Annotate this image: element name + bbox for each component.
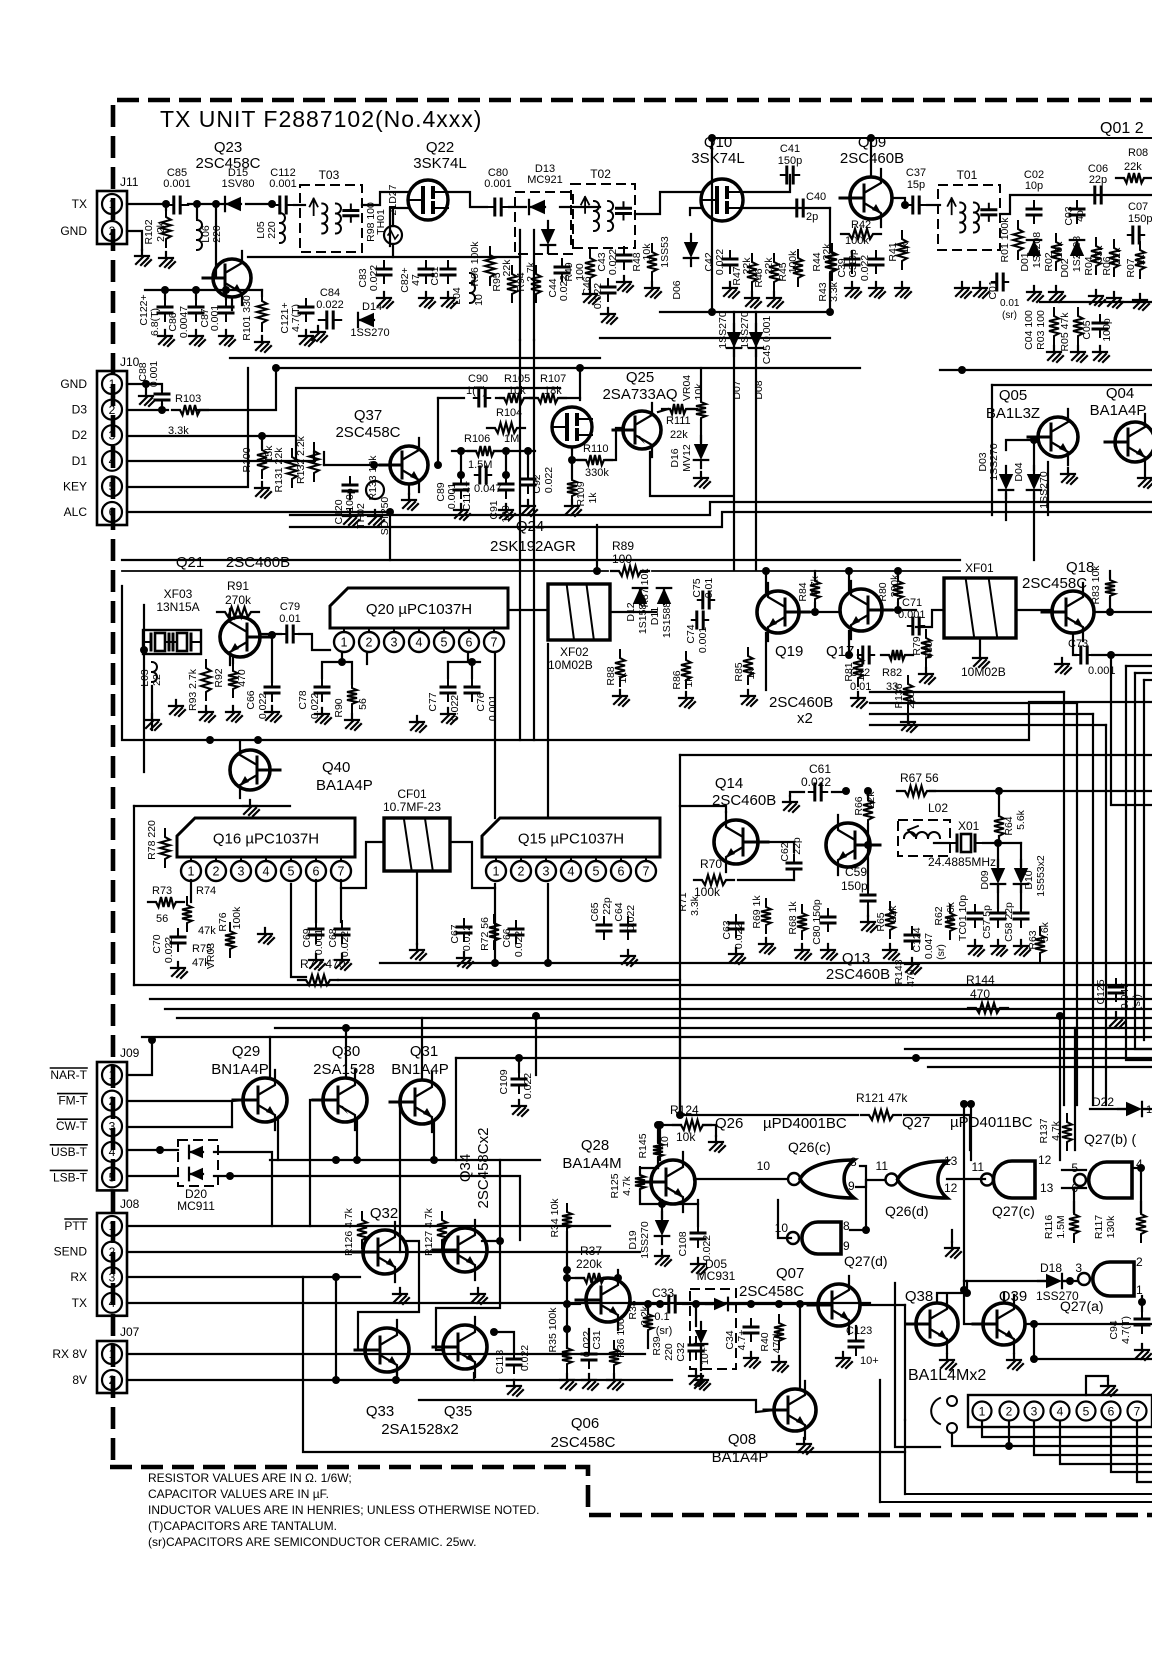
wire Q19 collector emitter xyxy=(765,571,767,592)
capacitor C114 xyxy=(475,474,491,476)
capacitor C72 symbol xyxy=(858,654,874,656)
svg-text:22p: 22p xyxy=(1089,174,1107,186)
wire Q38 Q39 tops xyxy=(937,1281,967,1303)
svg-text:R125: R125 xyxy=(609,1173,621,1198)
svg-text:5: 5 xyxy=(1083,1405,1090,1419)
svg-text:Q28: Q28 xyxy=(581,1137,609,1154)
svg-text:0.022: 0.022 xyxy=(543,467,555,493)
svg-text:Q10: Q10 xyxy=(704,134,732,151)
wire RX drop xyxy=(335,1277,337,1380)
svg-text:5: 5 xyxy=(1071,1161,1078,1175)
wires J08 J07 fanout xyxy=(127,1225,610,1227)
svg-text:56: 56 xyxy=(357,698,369,710)
wire Q20 pin1 rail xyxy=(322,652,342,678)
svg-text:J08: J08 xyxy=(120,1197,140,1211)
resistor R38 symbol xyxy=(643,1306,653,1338)
wire Q06 to Q07 line xyxy=(630,1303,661,1305)
svg-text:C33: C33 xyxy=(652,1286,674,1300)
grounds Q01 area xyxy=(955,282,971,298)
svg-text:R89: R89 xyxy=(612,539,634,553)
ground under Q27c xyxy=(951,1230,953,1242)
svg-text:VR04: VR04 xyxy=(681,375,693,401)
svg-text:BA1A4P: BA1A4P xyxy=(712,1449,769,1466)
svg-text:C61: C61 xyxy=(809,762,831,776)
svg-text:T01: T01 xyxy=(957,168,978,182)
svg-text:2: 2 xyxy=(366,636,373,650)
svg-text:11: 11 xyxy=(876,1159,889,1173)
svg-text:0.022: 0.022 xyxy=(309,693,321,719)
svg-text:1S1588: 1S1588 xyxy=(661,602,673,638)
schematic border dashed xyxy=(113,100,1152,1460)
svg-text:Q23: Q23 xyxy=(214,139,242,156)
svg-text:BA1A4M: BA1A4M xyxy=(562,1155,621,1172)
svg-text:11: 11 xyxy=(972,1160,985,1174)
svg-text:D02: D02 xyxy=(1059,258,1071,277)
svg-text:R08: R08 xyxy=(1128,147,1148,159)
svg-text:R62: R62 xyxy=(933,906,945,925)
svg-text:0.022: 0.022 xyxy=(449,695,461,721)
svg-text:Q27(a): Q27(a) xyxy=(1060,1298,1104,1314)
svg-text:C40: C40 xyxy=(806,191,826,203)
transformer T02 xyxy=(571,184,635,248)
svg-text:Q14: Q14 xyxy=(715,775,743,792)
svg-text:220k: 220k xyxy=(576,1257,603,1271)
svg-text:X01: X01 xyxy=(958,819,980,833)
IC Q16 xyxy=(177,818,355,857)
svg-text:22k: 22k xyxy=(670,429,688,441)
resistor R111 xyxy=(662,404,694,414)
svg-text:R78 220: R78 220 xyxy=(146,820,158,860)
svg-text:2: 2 xyxy=(109,224,116,238)
svg-text:Q13: Q13 xyxy=(842,950,870,967)
wire Q22 gates xyxy=(362,192,408,205)
svg-text:R124: R124 xyxy=(670,1103,699,1117)
svg-text:(sr): (sr) xyxy=(1131,994,1143,1010)
svg-text:Q06: Q06 xyxy=(571,1415,599,1432)
svg-text:4.7(T): 4.7(T) xyxy=(1120,1316,1132,1344)
svg-text:2SA1528x2: 2SA1528x2 xyxy=(381,1421,459,1438)
svg-text:Q34: Q34 xyxy=(457,1154,474,1182)
gate Q26d xyxy=(898,1161,948,1198)
svg-text:VR03: VR03 xyxy=(205,943,217,969)
wire Q10 drain xyxy=(743,175,790,192)
wire XF01 to Q18 xyxy=(1016,609,1052,611)
svg-text:1.5M: 1.5M xyxy=(1055,1215,1067,1238)
svg-text:C65: C65 xyxy=(589,902,601,921)
wire Q09 out xyxy=(892,198,905,205)
svg-text:TX: TX xyxy=(72,1296,87,1310)
svg-text:0.01: 0.01 xyxy=(1000,298,1020,309)
svg-text:0.047: 0.047 xyxy=(474,483,502,495)
svg-text:1SV80: 1SV80 xyxy=(221,178,254,190)
svg-text:4: 4 xyxy=(109,454,116,468)
svg-text:13: 13 xyxy=(1040,1181,1054,1195)
grounds IF1 xyxy=(199,706,215,722)
wire Q30 Q31 bases down xyxy=(310,1100,324,1226)
svg-text:4.7k: 4.7k xyxy=(621,1175,633,1196)
wire Q28 to Q26c xyxy=(694,1178,786,1180)
wire long mid fan xyxy=(134,984,1152,986)
svg-text:µPD4011BC: µPD4011BC xyxy=(950,1114,1033,1131)
svg-text:C71: C71 xyxy=(902,597,922,609)
wire D1 line xyxy=(127,460,315,462)
ground under Q20 pin4 xyxy=(410,716,426,732)
svg-text:1: 1 xyxy=(341,636,348,650)
svg-text:2SC460B: 2SC460B xyxy=(769,694,833,711)
svg-text:C73: C73 xyxy=(1068,638,1088,650)
svg-text:0.001: 0.001 xyxy=(269,178,297,190)
resistor R82 symbol xyxy=(881,650,913,660)
svg-text:R133 10k: R133 10k xyxy=(367,455,379,501)
svg-text:C91: C91 xyxy=(488,500,500,519)
svg-text:1S553x2: 1S553x2 xyxy=(1035,855,1047,897)
svg-text:0.022: 0.022 xyxy=(163,937,175,963)
svg-text:R37: R37 xyxy=(580,1244,602,1258)
connector J08 xyxy=(97,1213,127,1316)
svg-text:2: 2 xyxy=(109,1373,116,1387)
svg-text:(sr): (sr) xyxy=(935,944,947,960)
svg-text:(T)CAPACITORS ARE TANTALUM.: (T)CAPACITORS ARE TANTALUM. xyxy=(148,1519,337,1533)
svg-text:150p: 150p xyxy=(841,879,868,893)
svg-text:C69: C69 xyxy=(301,928,313,947)
svg-text:R77 470: R77 470 xyxy=(300,957,346,971)
transistor Q19 xyxy=(757,583,809,641)
svg-text:T03: T03 xyxy=(319,168,340,182)
svg-text:C72: C72 xyxy=(850,667,870,679)
wires J10 fanout xyxy=(127,383,148,385)
svg-text:µPD4001BC: µPD4001BC xyxy=(763,1115,847,1132)
svg-text:1: 1 xyxy=(109,1219,116,1233)
svg-text:7: 7 xyxy=(491,636,498,650)
gate Q27b2 xyxy=(1089,1162,1132,1198)
svg-text:R96 100k: R96 100k xyxy=(469,241,481,287)
svg-text:D09: D09 xyxy=(979,870,991,889)
plug circles xyxy=(947,1396,957,1406)
svg-text:D22: D22 xyxy=(1092,1095,1114,1109)
svg-text:R39: R39 xyxy=(651,1336,663,1355)
svg-text:C05: C05 xyxy=(1081,320,1093,339)
svg-text:7: 7 xyxy=(338,865,345,879)
svg-text:0.022: 0.022 xyxy=(257,693,269,719)
svg-text:CF01: CF01 xyxy=(397,787,427,801)
svg-text:D16: D16 xyxy=(669,448,681,467)
svg-text:C62: C62 xyxy=(779,842,791,861)
svg-text:6: 6 xyxy=(1108,1405,1115,1419)
svg-text:1: 1 xyxy=(109,1347,116,1361)
wire Q09 collector top xyxy=(870,138,872,177)
svg-text:10k: 10k xyxy=(508,385,526,397)
svg-text:R74: R74 xyxy=(196,885,216,897)
svg-text:R136: R136 xyxy=(893,683,905,708)
svg-text:9: 9 xyxy=(848,1179,855,1193)
svg-text:7: 7 xyxy=(1134,1405,1141,1419)
svg-text:5: 5 xyxy=(441,636,448,650)
svg-text:C123: C123 xyxy=(846,1325,872,1337)
svg-text:2SC458C: 2SC458C xyxy=(1022,575,1087,592)
svg-text:C79: C79 xyxy=(280,601,300,613)
transistor Q37 xyxy=(380,438,428,492)
connector J10 xyxy=(97,371,127,525)
IC Q15 xyxy=(482,818,660,857)
svg-text:C68: C68 xyxy=(327,928,339,947)
wire emitter bus Q29-31 xyxy=(270,1159,540,1161)
svg-text:D14: D14 xyxy=(362,301,382,313)
svg-text:10+: 10+ xyxy=(860,1355,879,1367)
svg-text:13N15A: 13N15A xyxy=(156,600,199,614)
wire Q23 base bias xyxy=(164,290,166,299)
svg-text:0.001: 0.001 xyxy=(209,305,221,331)
fet Q22 xyxy=(408,180,448,220)
wire R105 R107 bus xyxy=(438,397,464,399)
svg-text:1SS270: 1SS270 xyxy=(639,1221,651,1259)
svg-text:0.001: 0.001 xyxy=(487,695,499,721)
grounds xtal cluster xyxy=(968,940,984,956)
svg-text:R92: R92 xyxy=(213,668,225,687)
svg-text:C74: C74 xyxy=(685,624,697,643)
svg-text:Q19: Q19 xyxy=(775,643,803,660)
svg-text:R03 100: R03 100 xyxy=(1035,310,1047,350)
wire right bottom horizontals xyxy=(905,1048,1152,1050)
wire Q37 base xyxy=(313,452,315,462)
transistor Q23 xyxy=(203,251,251,305)
svg-text:R86: R86 xyxy=(671,670,683,689)
svg-text:3: 3 xyxy=(238,865,245,879)
svg-text:Q05: Q05 xyxy=(999,387,1027,404)
svg-text:R93 2.7k: R93 2.7k xyxy=(187,668,199,711)
wire Q17 base right xyxy=(891,609,916,611)
svg-text:6: 6 xyxy=(313,865,320,879)
svg-text:J09: J09 xyxy=(120,1046,140,1060)
svg-text:(sr): (sr) xyxy=(1002,310,1017,321)
svg-text:2SC458C: 2SC458C xyxy=(335,424,400,441)
svg-text:R101 330: R101 330 xyxy=(241,295,253,341)
svg-text:3SK74L: 3SK74L xyxy=(691,150,744,167)
svg-text:100: 100 xyxy=(574,263,586,281)
svg-text:0.0047: 0.0047 xyxy=(178,306,190,338)
svg-text:0.001: 0.001 xyxy=(697,627,709,653)
svg-text:R67 56: R67 56 xyxy=(900,771,939,785)
svg-text:R100: R100 xyxy=(241,447,253,472)
svg-text:T02: T02 xyxy=(590,167,611,181)
svg-text:0.001: 0.001 xyxy=(163,178,191,190)
svg-text:L04: L04 xyxy=(451,287,463,305)
svg-text:R34 10k: R34 10k xyxy=(549,1198,561,1238)
svg-text:1k: 1k xyxy=(587,492,599,504)
svg-text:R116: R116 xyxy=(1043,1215,1055,1239)
svg-text:0.022: 0.022 xyxy=(316,299,344,311)
svg-text:Q29: Q29 xyxy=(232,1043,260,1060)
wire T02 to Q10 xyxy=(635,192,701,214)
wire D3 line xyxy=(196,368,860,410)
svg-text:5: 5 xyxy=(109,1171,116,1185)
svg-text:1M: 1M xyxy=(504,433,519,445)
svg-text:C84: C84 xyxy=(320,287,340,299)
svg-text:1SS270: 1SS270 xyxy=(739,311,751,349)
wire Q27c to Q26d xyxy=(947,1178,985,1180)
transistor Q13 xyxy=(826,815,880,875)
svg-text:4: 4 xyxy=(109,1145,116,1159)
svg-text:Q32: Q32 xyxy=(370,1205,398,1222)
connector J07 xyxy=(97,1341,127,1393)
transistor Q06 and cluster xyxy=(576,1270,630,1330)
svg-text:R105: R105 xyxy=(504,373,530,385)
svg-text:R107: R107 xyxy=(540,373,566,385)
svg-text:BN1A4P: BN1A4P xyxy=(391,1061,449,1078)
wire Q22 output xyxy=(448,192,487,207)
svg-text:R127 4.7k: R127 4.7k xyxy=(423,1207,435,1256)
svg-text:D18: D18 xyxy=(1040,1261,1062,1275)
capacitor C31 symbol xyxy=(588,1346,590,1368)
svg-text:Q35: Q35 xyxy=(444,1403,472,1420)
svg-text:J11: J11 xyxy=(120,175,139,189)
wire Q16 pin7 to CF01 xyxy=(341,842,384,888)
svg-text:Q04: Q04 xyxy=(1106,385,1134,402)
svg-text:4: 4 xyxy=(1057,1405,1064,1419)
svg-text:8V: 8V xyxy=(72,1373,87,1387)
svg-text:15p: 15p xyxy=(907,179,925,191)
svg-text:D12: D12 xyxy=(625,602,637,621)
svg-text:1(T): 1(T) xyxy=(466,385,486,397)
svg-text:10: 10 xyxy=(757,1159,771,1173)
svg-text:C57 5p: C57 5p xyxy=(981,905,993,939)
svg-text:1SS270: 1SS270 xyxy=(717,311,729,349)
svg-text:1: 1 xyxy=(188,865,195,879)
svg-text:Q26(d): Q26(d) xyxy=(885,1203,929,1219)
svg-text:10.7MF-23: 10.7MF-23 xyxy=(383,800,441,814)
svg-text:10p: 10p xyxy=(1025,180,1043,192)
svg-text:R76: R76 xyxy=(217,912,229,931)
svg-text:C109: C109 xyxy=(498,1069,510,1094)
svg-text:4: 4 xyxy=(109,1296,116,1310)
svg-text:2: 2 xyxy=(1006,1405,1013,1419)
grounds Q09 xyxy=(869,282,885,298)
strip box wire xyxy=(122,586,1152,740)
svg-text:R121 47k: R121 47k xyxy=(856,1091,908,1105)
wire Q13 box outline xyxy=(680,754,1152,756)
svg-text:R117: R117 xyxy=(1093,1215,1105,1239)
svg-text:R88: R88 xyxy=(605,666,617,685)
svg-text:R103: R103 xyxy=(175,393,201,405)
svg-text:0.001: 0.001 xyxy=(484,178,512,190)
svg-text:10k: 10k xyxy=(693,383,705,401)
Q01 bias lower rail xyxy=(1040,301,1152,303)
svg-text:ALC: ALC xyxy=(64,505,88,519)
svg-text:D08: D08 xyxy=(753,380,765,399)
transistor Q17 xyxy=(840,581,892,639)
wire Q20 pin6 rail xyxy=(448,661,480,663)
svg-text:MV12: MV12 xyxy=(681,444,693,472)
svg-text:13: 13 xyxy=(944,1154,958,1168)
svg-text:C81: C81 xyxy=(429,266,441,285)
svg-text:C78: C78 xyxy=(297,690,309,709)
svg-text:L02: L02 xyxy=(928,801,948,815)
svg-text:D19: D19 xyxy=(627,1230,639,1249)
svg-text:SEND: SEND xyxy=(54,1245,88,1259)
svg-text:0.022: 0.022 xyxy=(733,923,745,949)
transistor Q21 xyxy=(220,609,270,665)
svg-text:R40: R40 xyxy=(759,1332,771,1351)
svg-text:3: 3 xyxy=(1075,1261,1082,1275)
svg-text:47k: 47k xyxy=(198,925,216,937)
svg-text:R72 56: R72 56 xyxy=(479,917,491,951)
svg-text:56: 56 xyxy=(156,913,168,925)
svg-text:RX: RX xyxy=(70,1270,87,1284)
svg-text:R36 100: R36 100 xyxy=(615,1318,627,1358)
svg-text:R71: R71 xyxy=(677,892,689,911)
svg-text:Q08: Q08 xyxy=(728,1431,756,1448)
svg-text:C32: C32 xyxy=(675,1342,687,1361)
svg-text:270k: 270k xyxy=(225,593,252,607)
connector J09 xyxy=(97,1062,127,1190)
svg-text:R82: R82 xyxy=(882,667,902,679)
wire D20 outputs xyxy=(214,1152,272,1226)
svg-text:2SC458C: 2SC458C xyxy=(550,1434,615,1451)
svg-text:Q16 µPC1037H: Q16 µPC1037H xyxy=(213,831,319,848)
svg-text:C58 22p: C58 22p xyxy=(1003,902,1015,942)
svg-text:1: 1 xyxy=(979,1405,986,1419)
svg-text:3: 3 xyxy=(109,1270,116,1284)
wire Q07 collector xyxy=(860,1304,905,1306)
svg-text:TX UNIT F2887102(No.4xxx): TX UNIT F2887102(No.4xxx) xyxy=(160,106,482,132)
svg-text:RESISTOR VALUES ARE IN Ω. 1/6W: RESISTOR VALUES ARE IN Ω. 1/6W; xyxy=(148,1471,352,1485)
svg-text:22p: 22p xyxy=(601,897,613,915)
wire Q16 pin5 to R77 xyxy=(291,884,306,977)
svg-text:0.022: 0.022 xyxy=(714,249,726,275)
wire Q19 base right xyxy=(808,611,838,613)
svg-text:R87 10k: R87 10k xyxy=(639,568,651,608)
svg-text:CAPACITOR VALUES ARE IN µF.: CAPACITOR VALUES ARE IN µF. xyxy=(148,1487,329,1501)
wire Q27d out xyxy=(778,1200,791,1238)
svg-text:3: 3 xyxy=(109,1119,116,1133)
gate Q27c xyxy=(993,1161,1035,1198)
gate Q27d xyxy=(802,1222,841,1254)
svg-text:2SC458C: 2SC458C xyxy=(739,1283,804,1300)
svg-text:0.01: 0.01 xyxy=(279,613,300,625)
svg-text:J07: J07 xyxy=(120,1325,140,1339)
wire Q38 Q39 bases xyxy=(964,1290,983,1324)
connector bottom right xyxy=(968,1395,1152,1427)
svg-text:RX 8V: RX 8V xyxy=(52,1347,87,1361)
svg-text:3.3k: 3.3k xyxy=(689,895,701,916)
svg-text:8: 8 xyxy=(850,1155,857,1169)
svg-text:R05 47k: R05 47k xyxy=(1059,312,1071,352)
svg-text:6: 6 xyxy=(109,505,116,519)
svg-text:Q37: Q37 xyxy=(354,407,382,424)
svg-text:C75: C75 xyxy=(691,578,703,597)
svg-text:BN1A4P: BN1A4P xyxy=(211,1061,269,1078)
svg-text:0.022: 0.022 xyxy=(581,1331,593,1357)
svg-text:C37: C37 xyxy=(906,167,926,179)
svg-text:R98 100: R98 100 xyxy=(365,202,377,242)
svg-text:MC911: MC911 xyxy=(177,1199,215,1213)
svg-text:3: 3 xyxy=(109,428,116,442)
svg-text:D2: D2 xyxy=(72,428,88,442)
svg-text:BA1L4Mx2: BA1L4Mx2 xyxy=(908,1367,986,1384)
svg-text:C77: C77 xyxy=(427,692,439,711)
svg-text:2: 2 xyxy=(518,865,525,879)
svg-text:R132 2.2k: R132 2.2k xyxy=(295,435,307,484)
svg-text:C59: C59 xyxy=(845,865,867,879)
wire bus rows mid xyxy=(290,502,1152,515)
svg-text:10M02B: 10M02B xyxy=(548,658,593,672)
svg-text:LSB-T: LSB-T xyxy=(53,1170,88,1184)
svg-text:Q25: Q25 xyxy=(626,369,654,386)
svg-text:Q07: Q07 xyxy=(776,1265,804,1282)
wire Q34 collector to Q35 base xyxy=(436,1241,500,1350)
svg-text:Q40: Q40 xyxy=(322,759,350,776)
svg-text:1: 1 xyxy=(109,197,116,211)
svg-text:R104: R104 xyxy=(496,407,522,419)
